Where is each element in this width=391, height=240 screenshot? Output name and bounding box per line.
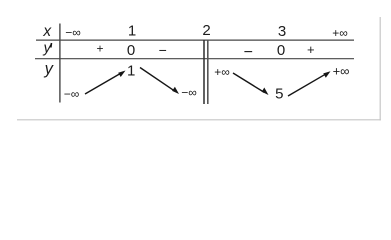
table separator (y' / y rows) <box>35 58 354 60</box>
table header separator (x / y' rows) <box>36 39 354 41</box>
svg-text:3: 3 <box>278 23 286 40</box>
svg-text:+: + <box>307 42 315 57</box>
faint outer cell border bottom <box>17 119 381 121</box>
y row: falling arrow to -infinity <box>140 68 179 95</box>
svg-text:+: + <box>96 42 103 56</box>
double bar at x=2 (right) <box>207 40 209 104</box>
y row: rising arrow to +infinity <box>288 71 331 96</box>
y row: rising arrow to 1 <box>85 71 126 95</box>
double bar at x=2 (left) <box>203 40 205 104</box>
y row: falling arrow to 5 <box>233 73 269 95</box>
svg-text:−∞: −∞ <box>181 86 197 100</box>
svg-text:0: 0 <box>127 42 135 59</box>
svg-text:2: 2 <box>202 22 210 39</box>
svg-text:+∞: +∞ <box>214 65 230 79</box>
svg-text:y: y <box>42 40 52 57</box>
svg-text:1: 1 <box>127 63 135 80</box>
svg-text:5: 5 <box>275 86 283 103</box>
svg-text:0: 0 <box>277 42 285 59</box>
label column vertical line <box>59 24 61 103</box>
faint outer cell border right <box>379 17 381 120</box>
svg-text:+∞: +∞ <box>333 64 350 79</box>
svg-text:−∞: −∞ <box>65 26 81 40</box>
svg-text:1: 1 <box>128 22 136 39</box>
svg-text:−∞: −∞ <box>64 87 80 101</box>
svg-text:+∞: +∞ <box>332 26 348 40</box>
svg-text:−: − <box>159 42 167 58</box>
svg-text:x: x <box>42 23 52 40</box>
svg-text:−: − <box>244 44 253 61</box>
